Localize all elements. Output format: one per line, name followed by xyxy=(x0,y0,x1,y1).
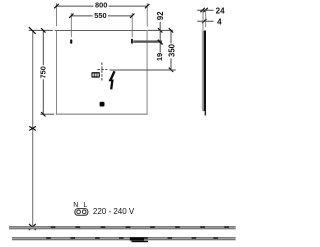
svg-text:550: 550 xyxy=(94,11,106,20)
svg-text:92: 92 xyxy=(156,11,165,20)
svg-text:220 - 240 V: 220 - 240 V xyxy=(93,207,135,216)
svg-text:800: 800 xyxy=(95,1,107,10)
svg-text:19: 19 xyxy=(155,53,164,61)
svg-text:750: 750 xyxy=(39,66,48,78)
svg-text:350: 350 xyxy=(168,43,177,57)
svg-text:4: 4 xyxy=(217,18,222,27)
svg-text:24: 24 xyxy=(216,6,225,15)
